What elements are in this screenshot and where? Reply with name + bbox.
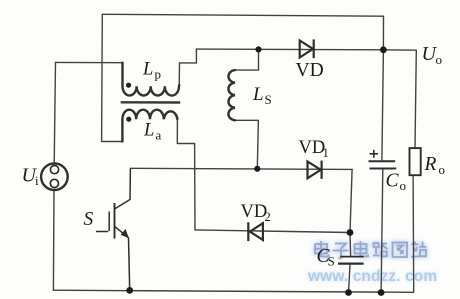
svg-text:S: S [328,254,335,269]
junction dot emitter/bottom [126,287,133,294]
capacitor Cs [338,257,364,264]
junction dot Cs/bottom [345,289,352,296]
svg-text:VD: VD [296,60,324,81]
wire: node row y=49 [196,48,383,51]
svg-text:L: L [252,84,264,105]
svg-text:o: o [400,178,407,193]
wire: VD1 cathode corner down Cs rail [350,169,352,255]
svg-text:2: 2 [265,210,271,224]
wire: left rail down to La [102,14,123,141]
wire: Ui top to Lp left [56,61,123,63]
node N1 junction dot [380,46,387,53]
svg-text:C: C [386,171,400,192]
wire: N1 down to Co [382,50,384,160]
watermark line 1 glow [315,241,426,258]
svg-text:L: L [143,121,154,141]
phase dot Lp [126,83,131,88]
svg-text:S: S [265,92,272,107]
wire: VD2 row [195,230,350,233]
wire: collector row y=168.5 [130,168,352,169]
phase dot La [126,117,131,122]
node N2 junction dot [255,46,261,52]
inductor La winding [122,110,177,142]
wire: top rail [102,14,383,50]
wire: Ui top lead [54,62,55,163]
watermark line 1: 电子电路图站 (hand-drawn glyphs) [315,241,426,258]
wire: N1 to Ro rail [383,50,416,148]
node D4 junction dot (VD2/Cs rail) [347,229,354,236]
svg-text:VD: VD [241,202,268,222]
svg-text:i: i [35,173,39,188]
plus sign of Co [370,150,378,158]
diode VD1 [308,161,322,179]
svg-text:o: o [439,162,446,177]
svg-text:R: R [424,154,437,175]
svg-text:p: p [155,67,162,82]
svg-text:1: 1 [323,146,329,160]
wire: Lp right step up [179,49,196,87]
wire: bottom rail [53,290,413,292]
svg-text:VD: VD [299,138,326,158]
diode VD2 [248,222,263,241]
svg-text:L: L [142,60,153,80]
inductor Lp winding [123,63,180,96]
wire: Ui bottom lead [52,190,55,290]
wire: Cs bottom lead [349,265,351,293]
wire: Ls top lead from N2 [235,49,259,70]
wire: Co bottom lead [381,169,383,292]
inductor Ls winding [228,70,235,120]
svg-text:www. cndzz. com: www. cndzz. com [307,268,437,285]
svg-text:S: S [84,209,94,230]
resistor Ro [410,148,421,175]
node D3 junction dot (Ls/VD1) [254,166,260,172]
junction dot Co/bottom [378,289,385,296]
source Ui [41,163,68,190]
transistor S (IGBT) [96,168,130,290]
IGBT emitter arrow [121,229,129,238]
wire: La right lead to VD2 rail [177,119,195,230]
svg-text:a: a [156,128,162,143]
capacitor Co [369,161,397,168]
wire: Ro bottom to bottom rail [412,175,415,292]
transformer core [121,101,181,104]
wire: Ls bottom lead down to D3 [235,120,258,169]
diode VD [300,39,314,58]
svg-text:o: o [436,52,443,67]
